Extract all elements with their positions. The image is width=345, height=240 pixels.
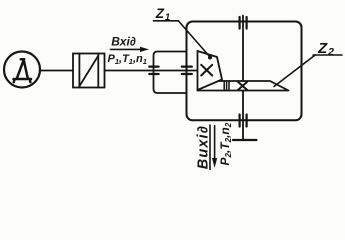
coupling inner line right	[97, 54, 99, 88]
wheel hub hatch	[224, 81, 229, 91]
label Vkhid (input) arrow	[111, 47, 150, 52]
svg-text:Вихі∂: Вихі∂	[196, 125, 212, 169]
coupling diagonal	[80, 56, 99, 86]
gearbox housing	[187, 22, 302, 121]
pinion x-mark	[201, 65, 212, 76]
bearing B2	[182, 67, 192, 74]
label Vyhid (output) underline	[209, 125, 211, 170]
bearing bottom (vertical shaft)	[240, 115, 247, 127]
wire shaft: coupling to pinion	[105, 70, 198, 72]
bearing B1	[149, 67, 158, 74]
motor M (circle)	[4, 52, 40, 88]
wheel x-mark	[238, 82, 247, 90]
motor letter D	[14, 59, 32, 82]
bevel wheel Z2	[198, 81, 289, 91]
label Z2 leader	[274, 55, 342, 87]
wire shaft: motor to coupling	[40, 70, 73, 72]
coupling inner line left	[78, 54, 80, 88]
bearing top (vertical shaft)	[240, 17, 247, 29]
bevel pinion Z1	[198, 51, 223, 90]
svg-text:Вхі∂: Вхі∂	[111, 35, 136, 49]
wire vertical shaft lower	[242, 91, 244, 140]
label Z1 leader	[154, 21, 213, 60]
shaft end bar	[233, 139, 257, 141]
svg-text:P1,T1,n1: P1,T1,n1	[108, 53, 147, 66]
wire vertical shaft upper	[242, 16, 244, 81]
bearing bracket (snout)	[154, 52, 187, 94]
output arrow	[212, 126, 217, 168]
svg-text:P2,T2,n2: P2,T2,n2	[218, 122, 233, 165]
coupling (box)	[73, 54, 105, 88]
